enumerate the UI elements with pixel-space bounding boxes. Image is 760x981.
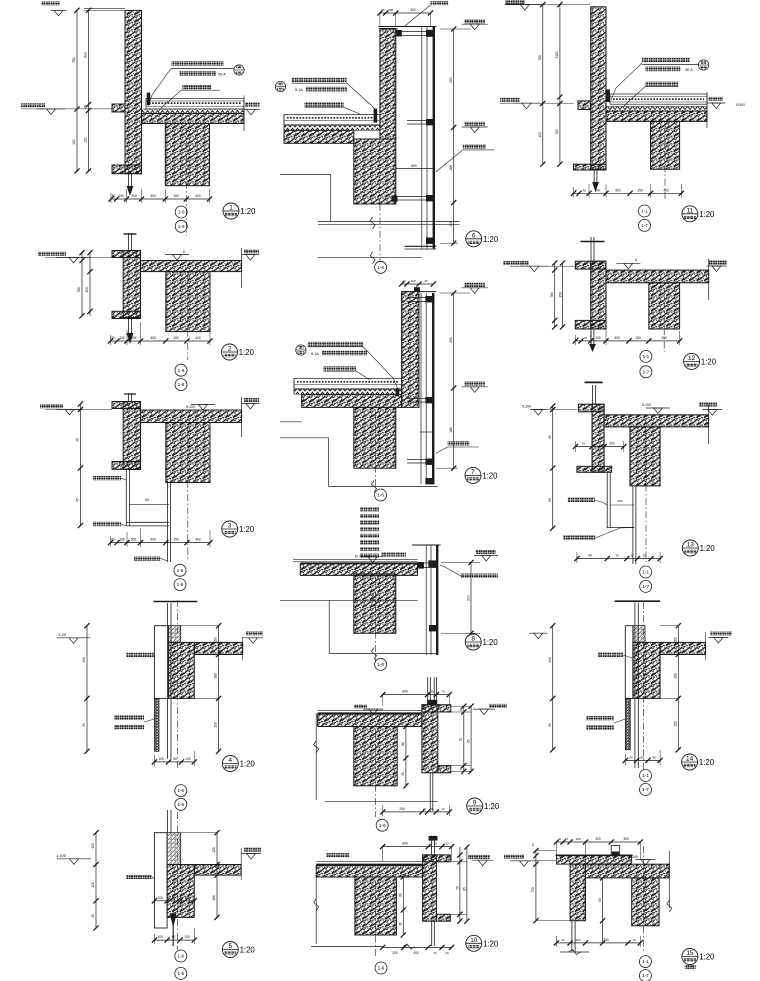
- P4 vertical dim right: [218, 626, 220, 752]
- svg-text:1:20: 1:20: [701, 357, 717, 366]
- svg-text:5.100: 5.100: [522, 405, 531, 409]
- P7 left slab edge lines: [293, 378, 295, 394]
- svg-text:400: 400: [91, 843, 95, 849]
- svg-text:500: 500: [615, 188, 621, 192]
- svg-text:150: 150: [173, 538, 179, 542]
- svg-text:1-6: 1-6: [177, 582, 184, 587]
- svg-text:780: 780: [72, 57, 76, 63]
- svg-text:120: 120: [212, 847, 216, 853]
- P4 pipe center: [167, 603, 169, 759]
- P3 beam axis: [187, 427, 189, 560]
- P14 section circle 1-7: [640, 784, 652, 796]
- svg-text:30: 30: [399, 922, 403, 926]
- P10 floor finish line: [316, 860, 422, 862]
- P7 bracket 2: [407, 398, 433, 400]
- P6 parapet wall upper: [380, 29, 396, 140]
- svg-text:8: 8: [635, 258, 637, 262]
- P1 beam: [165, 124, 209, 186]
- P15 top slab: [586, 864, 670, 878]
- svg-text:5: 5: [229, 943, 233, 950]
- P6 detail circle 6: [466, 231, 482, 247]
- svg-text:1-6: 1-6: [178, 224, 185, 229]
- svg-text:100: 100: [388, 8, 393, 12]
- svg-text:1-6: 1-6: [378, 966, 385, 971]
- P14 detail circle 14: [682, 754, 698, 770]
- P7 beam: [354, 407, 396, 468]
- svg-text:1-6: 1-6: [177, 802, 184, 807]
- svg-text:1.100: 1.100: [56, 853, 67, 858]
- P10 slab dark top line: [316, 863, 422, 865]
- svg-text:150: 150: [173, 194, 179, 198]
- P13 detail circle 13: [682, 540, 698, 556]
- svg-text:150: 150: [635, 336, 641, 340]
- P8 curtain wall mullion: [425, 545, 427, 655]
- P6 insulation zigzag band left: [284, 126, 380, 131]
- svg-text:450: 450: [82, 657, 86, 663]
- P15 right wall: [632, 878, 659, 926]
- P11 leader annotation line 1: [642, 58, 690, 63]
- svg-text:150: 150: [214, 637, 218, 643]
- P6 small ref circle left edge: [275, 81, 285, 91]
- svg-text:70: 70: [615, 554, 619, 558]
- P15 level symbol left: [504, 854, 524, 858]
- P7 small ref circle: [296, 345, 306, 355]
- svg-text:14.100: 14.100: [627, 855, 638, 859]
- P8 floor finish lines: [293, 559, 418, 561]
- svg-text:30: 30: [401, 772, 405, 776]
- svg-text:1-6: 1-6: [177, 971, 184, 976]
- svg-text:1-6: 1-6: [177, 568, 184, 573]
- P1 section circle 1-6 lower: [175, 220, 187, 232]
- P10 pipe top: [430, 836, 432, 855]
- svg-text:1: 1: [229, 205, 233, 212]
- P2 wall top flange: [112, 251, 141, 258]
- svg-text:80: 80: [173, 757, 177, 761]
- P3 vertical dim: [80, 404, 82, 526]
- svg-text:1-7: 1-7: [642, 973, 649, 978]
- svg-text:600: 600: [402, 690, 408, 694]
- P13 wall bottom flange: [577, 466, 612, 472]
- P1 floor finish layers: [146, 98, 244, 109]
- svg-text:1:20: 1:20: [240, 946, 256, 955]
- P3 label drain pipe: [134, 557, 160, 561]
- P9 beam axis: [375, 731, 377, 817]
- P12 level symbol mid: [616, 262, 640, 264]
- svg-text:20: 20: [402, 279, 406, 283]
- P10 pipe below wall: [431, 921, 433, 946]
- P3 bottom dimension line: [111, 542, 211, 544]
- P1 beam axis: [185, 128, 187, 236]
- P9 upstand bottom flange: [438, 766, 451, 773]
- P1 gutter piece at wall/slab junction: [147, 93, 150, 106]
- svg-text:300: 300: [623, 837, 629, 841]
- P11 parapet wall: [591, 7, 606, 170]
- svg-text:1:20: 1:20: [699, 758, 715, 767]
- svg-text:100: 100: [119, 538, 125, 542]
- svg-text:100: 100: [185, 757, 191, 761]
- P9 detail circle 9: [467, 798, 483, 814]
- svg-text:1-1: 1-1: [642, 959, 649, 964]
- P13 slab right end: [708, 404, 710, 444]
- P11 detail circle 11: [682, 206, 698, 222]
- P13 beam axis: [645, 431, 647, 562]
- P12 pipe above flange: [590, 237, 592, 261]
- svg-text:150: 150: [72, 139, 76, 145]
- P12 slab right end: [708, 259, 710, 300]
- P7 right dimension line: [453, 293, 455, 468]
- svg-text:1-1: 1-1: [642, 570, 649, 575]
- svg-text:70: 70: [433, 842, 437, 846]
- P7 section circle shared: [375, 489, 387, 501]
- P5 axis line: [177, 812, 179, 950]
- P9 inner dim: [405, 727, 407, 786]
- svg-text:50: 50: [82, 723, 86, 727]
- P4 stone cladding panel: [154, 626, 168, 699]
- P10 bottom line with break: [311, 946, 383, 948]
- svg-text:2: 2: [228, 346, 232, 353]
- svg-text:1:20: 1:20: [483, 235, 499, 244]
- P13 level symbol right: [699, 403, 717, 407]
- svg-text:5.1A: 5.1A: [311, 352, 319, 356]
- P6 junction gutter: [374, 109, 378, 123]
- svg-text:1:20: 1:20: [239, 525, 255, 534]
- svg-text:1:20: 1:20: [484, 802, 500, 811]
- P7 level symbol right top: [464, 283, 485, 287]
- svg-text:400: 400: [150, 336, 156, 340]
- P6 curtain wall bottom cap: [405, 245, 437, 247]
- P9 pipe below upstand: [429, 773, 431, 811]
- svg-text:80: 80: [172, 896, 176, 900]
- P5 anchor arrow: [170, 914, 177, 929]
- P10 beam axis: [375, 882, 377, 958]
- svg-text:780: 780: [538, 55, 542, 61]
- P7 bracket 4: [425, 478, 434, 484]
- P1 section circle 1-6 upper: [175, 206, 187, 218]
- svg-text:6: 6: [472, 232, 476, 239]
- svg-text:50: 50: [548, 723, 552, 727]
- svg-text:100: 100: [575, 837, 580, 841]
- P4 axis line: [177, 600, 179, 770]
- svg-text:80: 80: [652, 755, 656, 759]
- svg-text:100: 100: [157, 935, 163, 939]
- P4 label second pour: [114, 725, 144, 729]
- P4 bottom dimension line: [154, 761, 194, 763]
- P2 level symbol left: [38, 252, 66, 256]
- svg-text:100: 100: [594, 188, 600, 192]
- svg-text:900: 900: [84, 52, 88, 58]
- svg-text:10: 10: [470, 937, 478, 944]
- P8 section circle bottom: [375, 658, 387, 670]
- svg-text:150: 150: [674, 637, 678, 643]
- svg-text:1-7: 1-7: [643, 369, 650, 374]
- P15 top dimension line: [556, 841, 640, 843]
- svg-text:400: 400: [195, 336, 201, 340]
- P15 break line bottom-left: [560, 951, 589, 953]
- svg-text:400: 400: [413, 951, 419, 955]
- P13 wall top flange: [578, 404, 604, 412]
- P6 bracket 1: [396, 31, 434, 33]
- svg-text:30: 30: [630, 554, 634, 558]
- P5 slab right end + level: [240, 848, 242, 880]
- P1 small detail ref circle: [234, 65, 244, 75]
- svg-text:1-1: 1-1: [641, 209, 648, 214]
- P6 bracket 4: [426, 238, 435, 244]
- P3 stone cladding below wall: [125, 469, 127, 526]
- svg-text:150: 150: [674, 721, 678, 727]
- P14 column: [633, 642, 660, 698]
- P11 wall ledge left: [578, 101, 591, 110]
- svg-text:3: 3: [228, 523, 232, 530]
- P1 bottom dimension line: [111, 198, 210, 200]
- P9 floor finish line: [318, 709, 422, 711]
- P3 detail circle 3: [222, 521, 238, 537]
- P1 insulation zigzag band: [142, 109, 245, 114]
- svg-text:70: 70: [459, 767, 463, 771]
- P12 section circle 1-1: [640, 350, 652, 362]
- P1 downpipe below wall: [128, 174, 130, 188]
- svg-text:200: 200: [131, 538, 137, 542]
- P3 floor slab: [141, 410, 242, 423]
- P13 vertical dim: [552, 406, 554, 528]
- P7 detail circle 7: [465, 467, 481, 483]
- P3 pipe above flange: [128, 393, 130, 402]
- P11 bottom dimension line: [574, 192, 682, 194]
- svg-text:500: 500: [614, 336, 620, 340]
- svg-text:70: 70: [582, 188, 586, 192]
- P5 column: [167, 865, 194, 918]
- svg-text:8: 8: [471, 636, 475, 643]
- P8 beam axis: [375, 578, 377, 662]
- P1 leader line: [149, 69, 171, 105]
- P1 slab right end edge: [243, 96, 245, 132]
- P2 floor slab: [141, 261, 242, 272]
- P7 curtain wall mullion lines: [420, 293, 422, 484]
- P2 detail circle 2: [222, 344, 238, 360]
- svg-text:90: 90: [76, 438, 80, 442]
- svg-text:450: 450: [548, 657, 552, 663]
- P4 label stone cladding: [126, 653, 154, 657]
- svg-text:80: 80: [112, 194, 116, 198]
- P5 stone cladding panel: [154, 833, 167, 928]
- svg-text:400: 400: [195, 538, 201, 542]
- P11 floor finish layers: [610, 94, 707, 104]
- P7 bracket 3: [407, 459, 433, 461]
- P6 top dimension line: [380, 12, 431, 14]
- P11 leader annotation line 2: [645, 67, 680, 72]
- P8 beam: [354, 574, 396, 633]
- P1 roof slab: [142, 114, 245, 124]
- P3 wall top flange: [112, 402, 141, 409]
- P12 beam axis: [663, 288, 665, 352]
- P5 pipe top: [167, 810, 169, 833]
- svg-text:85: 85: [462, 887, 466, 891]
- P8 annotation fireproof board: [461, 574, 498, 578]
- P7 floor finish layers: [294, 378, 402, 388]
- P11 downpipe below wall: [593, 170, 595, 184]
- P12 section circle 1-7: [640, 366, 652, 378]
- P3 level symbol right: [244, 398, 259, 402]
- P11 leader line: [611, 63, 642, 100]
- P6 annotation vapour barrier right: [463, 144, 486, 148]
- P12 level symbol left: [503, 261, 529, 265]
- P9 level symbol left: [354, 704, 367, 708]
- P6 roof slab left: [284, 130, 354, 143]
- P2 wall bottom flange: [112, 311, 141, 318]
- P14 axis line: [643, 602, 645, 770]
- svg-text:60: 60: [548, 498, 552, 502]
- P6 leader annotation line 1: [292, 78, 347, 83]
- P5 bottom dimension line: [154, 939, 194, 941]
- svg-text:1-7: 1-7: [641, 223, 648, 228]
- svg-text:50 A: 50 A: [218, 73, 226, 77]
- svg-text:8: 8: [183, 250, 185, 254]
- P3 drain pipe: [167, 481, 169, 562]
- P9 slab dark top line: [318, 712, 422, 714]
- svg-text:1:20: 1:20: [483, 638, 499, 647]
- svg-text:70: 70: [441, 807, 445, 811]
- svg-text:80: 80: [640, 755, 644, 759]
- P6 curtain wall mullion lines: [421, 27, 423, 249]
- svg-text:45: 45: [91, 914, 95, 918]
- P1 leader annotation line 1: [172, 61, 224, 66]
- P10 detail circle 10: [466, 935, 482, 951]
- P2 vertical dim: [81, 253, 83, 316]
- svg-text:5.100: 5.100: [186, 405, 195, 409]
- svg-text:400: 400: [150, 538, 156, 542]
- P14 label insulation: [586, 716, 614, 720]
- svg-text:15: 15: [686, 950, 694, 957]
- P14 label second pour: [586, 725, 614, 729]
- P6 parapet cap: [378, 26, 436, 28]
- P1 level symbol top-left: [41, 2, 60, 6]
- P7 annotation insulation right: [448, 441, 470, 445]
- P7 level symbol right mid: [464, 382, 485, 386]
- P8 floor lines below: [280, 599, 418, 601]
- svg-text:1-7: 1-7: [642, 584, 649, 589]
- svg-text:70: 70: [561, 938, 565, 942]
- P3 wall bottom flange: [112, 462, 141, 470]
- P9 grid line below: [325, 801, 438, 803]
- P5 detail circle 5: [222, 942, 238, 958]
- svg-text:250: 250: [449, 77, 453, 83]
- P10 wall top flange: [423, 855, 451, 862]
- svg-text:1-6: 1-6: [177, 788, 184, 793]
- svg-text:600: 600: [411, 164, 417, 168]
- P14 bottom dimension line: [625, 759, 660, 761]
- svg-text:50 A: 50 A: [685, 68, 693, 72]
- P3 wall: [123, 402, 140, 470]
- P5 label stone cladding: [126, 875, 152, 879]
- svg-text:80: 80: [399, 893, 403, 897]
- svg-text:70: 70: [632, 938, 636, 942]
- P13 pipe above flange: [592, 385, 594, 404]
- svg-text:60: 60: [145, 498, 149, 502]
- P1 parapet wall: [125, 10, 142, 173]
- svg-text:80: 80: [111, 538, 115, 542]
- P7 junction gutter: [396, 388, 400, 396]
- P13 beam: [630, 427, 660, 486]
- P12 wall bottom flange: [575, 320, 606, 329]
- P3 label metal support: [93, 522, 121, 526]
- svg-text:200: 200: [392, 951, 398, 955]
- P5 slab right: [194, 865, 241, 876]
- P15 bottom-left pipe: [571, 921, 573, 952]
- svg-text:100: 100: [595, 336, 601, 340]
- svg-text:60: 60: [401, 742, 405, 746]
- P10 top dimension line: [383, 846, 452, 848]
- P14 slab right end + level: [705, 632, 707, 660]
- svg-text:40: 40: [424, 279, 428, 283]
- P9 beam: [354, 727, 397, 786]
- svg-text:760: 760: [555, 129, 559, 135]
- svg-text:150: 150: [538, 132, 542, 138]
- P1 vertical dim line a: [76, 10, 78, 171]
- P6 floor lines below: [318, 221, 460, 223]
- svg-text:100: 100: [157, 896, 163, 900]
- svg-text:30: 30: [642, 554, 646, 558]
- svg-text:250: 250: [449, 337, 453, 343]
- svg-text:150: 150: [214, 722, 218, 728]
- P12 beam: [649, 283, 680, 329]
- svg-text:150: 150: [84, 137, 88, 143]
- P10 level symbol right: [468, 855, 490, 859]
- P10 left edge with break: [315, 877, 317, 944]
- P9 pipe top: [427, 677, 429, 705]
- P13 label stone cladding: [568, 498, 595, 502]
- P13 inner dim at wall: [575, 446, 623, 448]
- P15 slab right portion edge: [668, 851, 670, 908]
- P9 right dim a: [463, 706, 465, 771]
- P11 level symbol left at slab: [500, 98, 520, 102]
- P7 parapet wall: [402, 292, 419, 408]
- P11 insulation zigzag band: [606, 107, 707, 112]
- svg-text:200: 200: [131, 336, 137, 340]
- svg-text:40: 40: [588, 554, 592, 558]
- P5 mid dim line: [154, 900, 194, 902]
- svg-text:45: 45: [76, 498, 80, 502]
- P2 level symbol right: [244, 249, 259, 253]
- P6 top annotation: [431, 1, 449, 5]
- P6 leader line: [347, 83, 377, 112]
- svg-text:20: 20: [531, 843, 535, 847]
- P1 wall top level reference lines: [84, 8, 125, 10]
- svg-text:1400: 1400: [555, 51, 559, 58]
- P8 level symbol right: [476, 550, 496, 554]
- svg-text:200: 200: [467, 595, 471, 601]
- svg-text:20: 20: [445, 842, 449, 846]
- P9 bottom dimension line: [383, 811, 450, 813]
- P1 leader annotation line 2: [179, 71, 216, 76]
- svg-text:750: 750: [531, 887, 535, 893]
- P5 section circle pair: [175, 950, 187, 962]
- P3 level symbol left: [40, 404, 63, 408]
- svg-text:185: 185: [449, 165, 453, 171]
- P10 beam: [355, 877, 397, 935]
- svg-text:1-6: 1-6: [177, 954, 184, 959]
- svg-text:1-6: 1-6: [178, 210, 185, 215]
- P3 section circle pair bottom: [174, 564, 186, 576]
- P1 level symbol left at slab: [21, 103, 45, 107]
- P1 wall ledge left: [112, 104, 125, 112]
- P14 vertical dim left: [552, 626, 554, 750]
- svg-text:100: 100: [575, 938, 580, 942]
- P8 floor slab: [300, 564, 417, 576]
- svg-text:100: 100: [119, 336, 125, 340]
- svg-text:180: 180: [674, 673, 678, 679]
- P11 roof slab: [606, 111, 707, 121]
- svg-text:70: 70: [581, 442, 585, 446]
- P4 label insulation bolts: [114, 716, 144, 720]
